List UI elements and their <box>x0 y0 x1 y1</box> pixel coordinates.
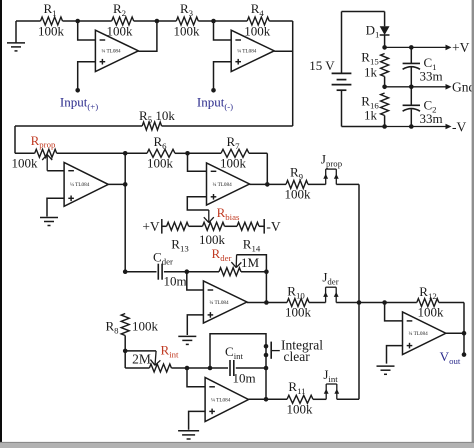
svg-text:R5 10k: R5 10k <box>139 108 175 125</box>
svg-text:¼ TL084: ¼ TL084 <box>213 182 233 188</box>
svg-text:¼ TL084: ¼ TL084 <box>409 331 429 337</box>
svg-text:100k: 100k <box>285 305 312 320</box>
svg-text:33m: 33m <box>419 69 442 84</box>
svg-text:2M: 2M <box>132 352 151 367</box>
svg-text:¼ TL084: ¼ TL084 <box>209 300 229 306</box>
svg-text:¼ TL084: ¼ TL084 <box>211 397 231 403</box>
svg-text:¼ TL084: ¼ TL084 <box>101 49 121 55</box>
svg-text:100k: 100k <box>220 156 247 171</box>
svg-text:¼ TL084: ¼ TL084 <box>237 49 257 55</box>
svg-text:1k: 1k <box>364 65 378 80</box>
svg-text:100k: 100k <box>147 156 174 171</box>
svg-text:1k: 1k <box>364 108 378 123</box>
svg-text:100k: 100k <box>285 187 312 202</box>
svg-text:100k: 100k <box>38 23 65 38</box>
svg-text:100k: 100k <box>287 402 314 417</box>
svg-text:100k: 100k <box>132 319 159 334</box>
svg-text:100k: 100k <box>418 305 445 320</box>
svg-text:¼ TL084: ¼ TL084 <box>70 182 90 188</box>
svg-text:clear: clear <box>284 349 311 364</box>
svg-text:10m: 10m <box>163 274 186 289</box>
svg-text:33m: 33m <box>419 111 442 126</box>
svg-text:+V: +V <box>452 40 470 55</box>
svg-text:Gnd: Gnd <box>452 80 474 95</box>
svg-text:1M: 1M <box>241 255 260 270</box>
svg-text:+V: +V <box>142 219 160 234</box>
svg-text:10m: 10m <box>232 371 255 386</box>
svg-text:15 V: 15 V <box>309 58 335 73</box>
svg-text:100k: 100k <box>174 23 201 38</box>
svg-text:100k: 100k <box>199 232 226 247</box>
svg-text:-V: -V <box>452 120 466 135</box>
svg-text:100k: 100k <box>12 156 39 171</box>
svg-text:100k: 100k <box>244 23 271 38</box>
svg-text:100k: 100k <box>107 23 134 38</box>
svg-text:-V: -V <box>266 219 280 234</box>
